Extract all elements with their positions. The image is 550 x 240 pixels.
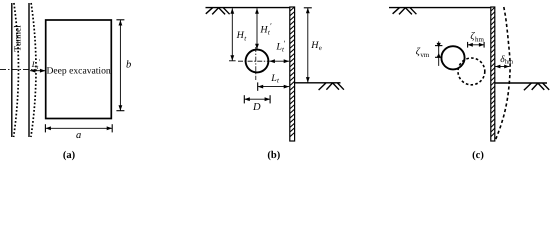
svg-text:e: e — [319, 44, 322, 52]
dimension a arrow — [45, 124, 112, 132]
dimension arrow Lt (tunnel to wall) — [30, 69, 45, 73]
circle horizontal centerline — [238, 60, 269, 62]
right ground hatch symbol (c) — [524, 83, 549, 90]
diaphragm wall (c) — [491, 7, 495, 141]
excavation rectangle — [46, 20, 112, 119]
deflected tunnel left wall (dotted curve) — [14, 3, 19, 137]
circle vertical centerline — [255, 47, 257, 80]
svg-text:vm: vm — [420, 51, 430, 59]
diaphragm wall (b) — [290, 7, 295, 141]
left ground hatch symbol — [206, 8, 230, 15]
svg-text:(b): (b) — [267, 150, 280, 161]
left ground line (c) — [389, 7, 495, 9]
tunnel right wall (solid) — [28, 3, 30, 137]
tunnel circle (b) — [246, 50, 269, 73]
deflected wall (dashed curve) — [495, 7, 510, 141]
dimension Ht arrow — [229, 8, 236, 61]
svg-text:′: ′ — [270, 22, 272, 31]
svg-text:hm: hm — [505, 58, 513, 65]
right ground line (b) — [295, 82, 341, 84]
svg-text:hm: hm — [475, 36, 485, 44]
dimension b arrow — [116, 20, 124, 111]
tunnel left wall (solid) — [11, 3, 13, 137]
svg-text:′: ′ — [284, 39, 286, 48]
deflected tunnel right wall (dotted curve) — [31, 3, 36, 137]
centerline (dash-dot) — [0, 69, 36, 71]
tunnel circle original (solid) — [441, 46, 464, 69]
dimension D arrow — [244, 95, 270, 103]
svg-text:Deep excavation: Deep excavation — [46, 66, 110, 77]
dimension delta_hm arrow — [495, 65, 509, 69]
dimension Lt' arrow (circle edge to wall) — [269, 59, 289, 63]
svg-text:(c): (c) — [472, 150, 484, 161]
svg-text:a: a — [76, 130, 81, 141]
left ground hatch symbol (c) — [393, 8, 417, 15]
svg-text:b: b — [126, 60, 131, 71]
svg-text:(a): (a) — [63, 150, 76, 161]
dimension zeta_hm arrow (horizontal displacement) — [468, 42, 485, 48]
dimension zeta_vm arrow (vertical settlement) — [435, 41, 442, 66]
left ground line — [206, 7, 290, 9]
svg-text:D: D — [252, 102, 261, 113]
dimension Lt arrow (tunnel axis to wall) — [258, 82, 290, 90]
dimension Ht' arrow — [255, 8, 259, 49]
right ground line (c) — [495, 82, 547, 84]
right ground hatch symbol (b) — [319, 83, 344, 90]
dimension He arrow — [304, 8, 312, 83]
svg-text:Tunnel: Tunnel — [13, 25, 23, 52]
tunnel circle displaced (dashed) — [458, 58, 485, 85]
